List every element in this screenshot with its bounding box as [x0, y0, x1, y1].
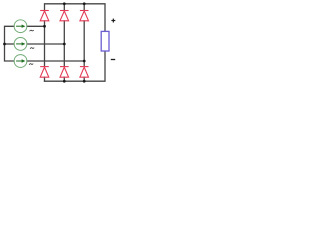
wire column 2 mid — [63, 21, 65, 67]
source V3 — [14, 55, 27, 68]
wire column 2 lower — [63, 77, 65, 81]
wire top stub D2 — [63, 4, 65, 11]
wire phase A — [27, 25, 45, 27]
node phase C / column 3 — [83, 60, 86, 63]
wire column 1 lower — [44, 77, 46, 81]
diode D1 — [40, 11, 49, 21]
source V2 — [14, 38, 27, 51]
wire top stub D3 — [83, 4, 85, 11]
node phase A / column 1 — [43, 25, 46, 28]
node neutral / source 2 — [3, 43, 6, 46]
node bottom rail / D5 — [63, 80, 66, 83]
diode D6 — [80, 67, 89, 78]
source V1 — [14, 20, 27, 33]
diode D3 — [80, 11, 89, 21]
wire phase C — [27, 60, 84, 62]
label - — [111, 59, 115, 61]
wire phase B — [27, 43, 64, 45]
wire top rail — [45, 4, 106, 32]
label ~ V1 — [30, 30, 34, 31]
node top rail / D3 — [83, 2, 86, 5]
wire column 3 lower — [83, 77, 85, 81]
label + — [111, 19, 115, 23]
wire column 3 mid — [83, 21, 85, 67]
diode D4 — [40, 67, 49, 78]
label ~ V3 — [29, 64, 33, 65]
wire column 1 mid — [44, 21, 46, 67]
node bottom rail / D6 — [83, 80, 86, 83]
diode D2 — [60, 11, 69, 21]
label ~ V2 — [30, 48, 34, 49]
resistor R load — [101, 31, 109, 51]
wire bottom rail — [45, 51, 106, 81]
node top rail / D2 — [63, 2, 66, 5]
diode D5 — [60, 67, 69, 78]
wire neutral bus — [5, 26, 15, 61]
node phase B / column 2 — [63, 43, 66, 46]
wire neutral stub B — [5, 43, 15, 45]
